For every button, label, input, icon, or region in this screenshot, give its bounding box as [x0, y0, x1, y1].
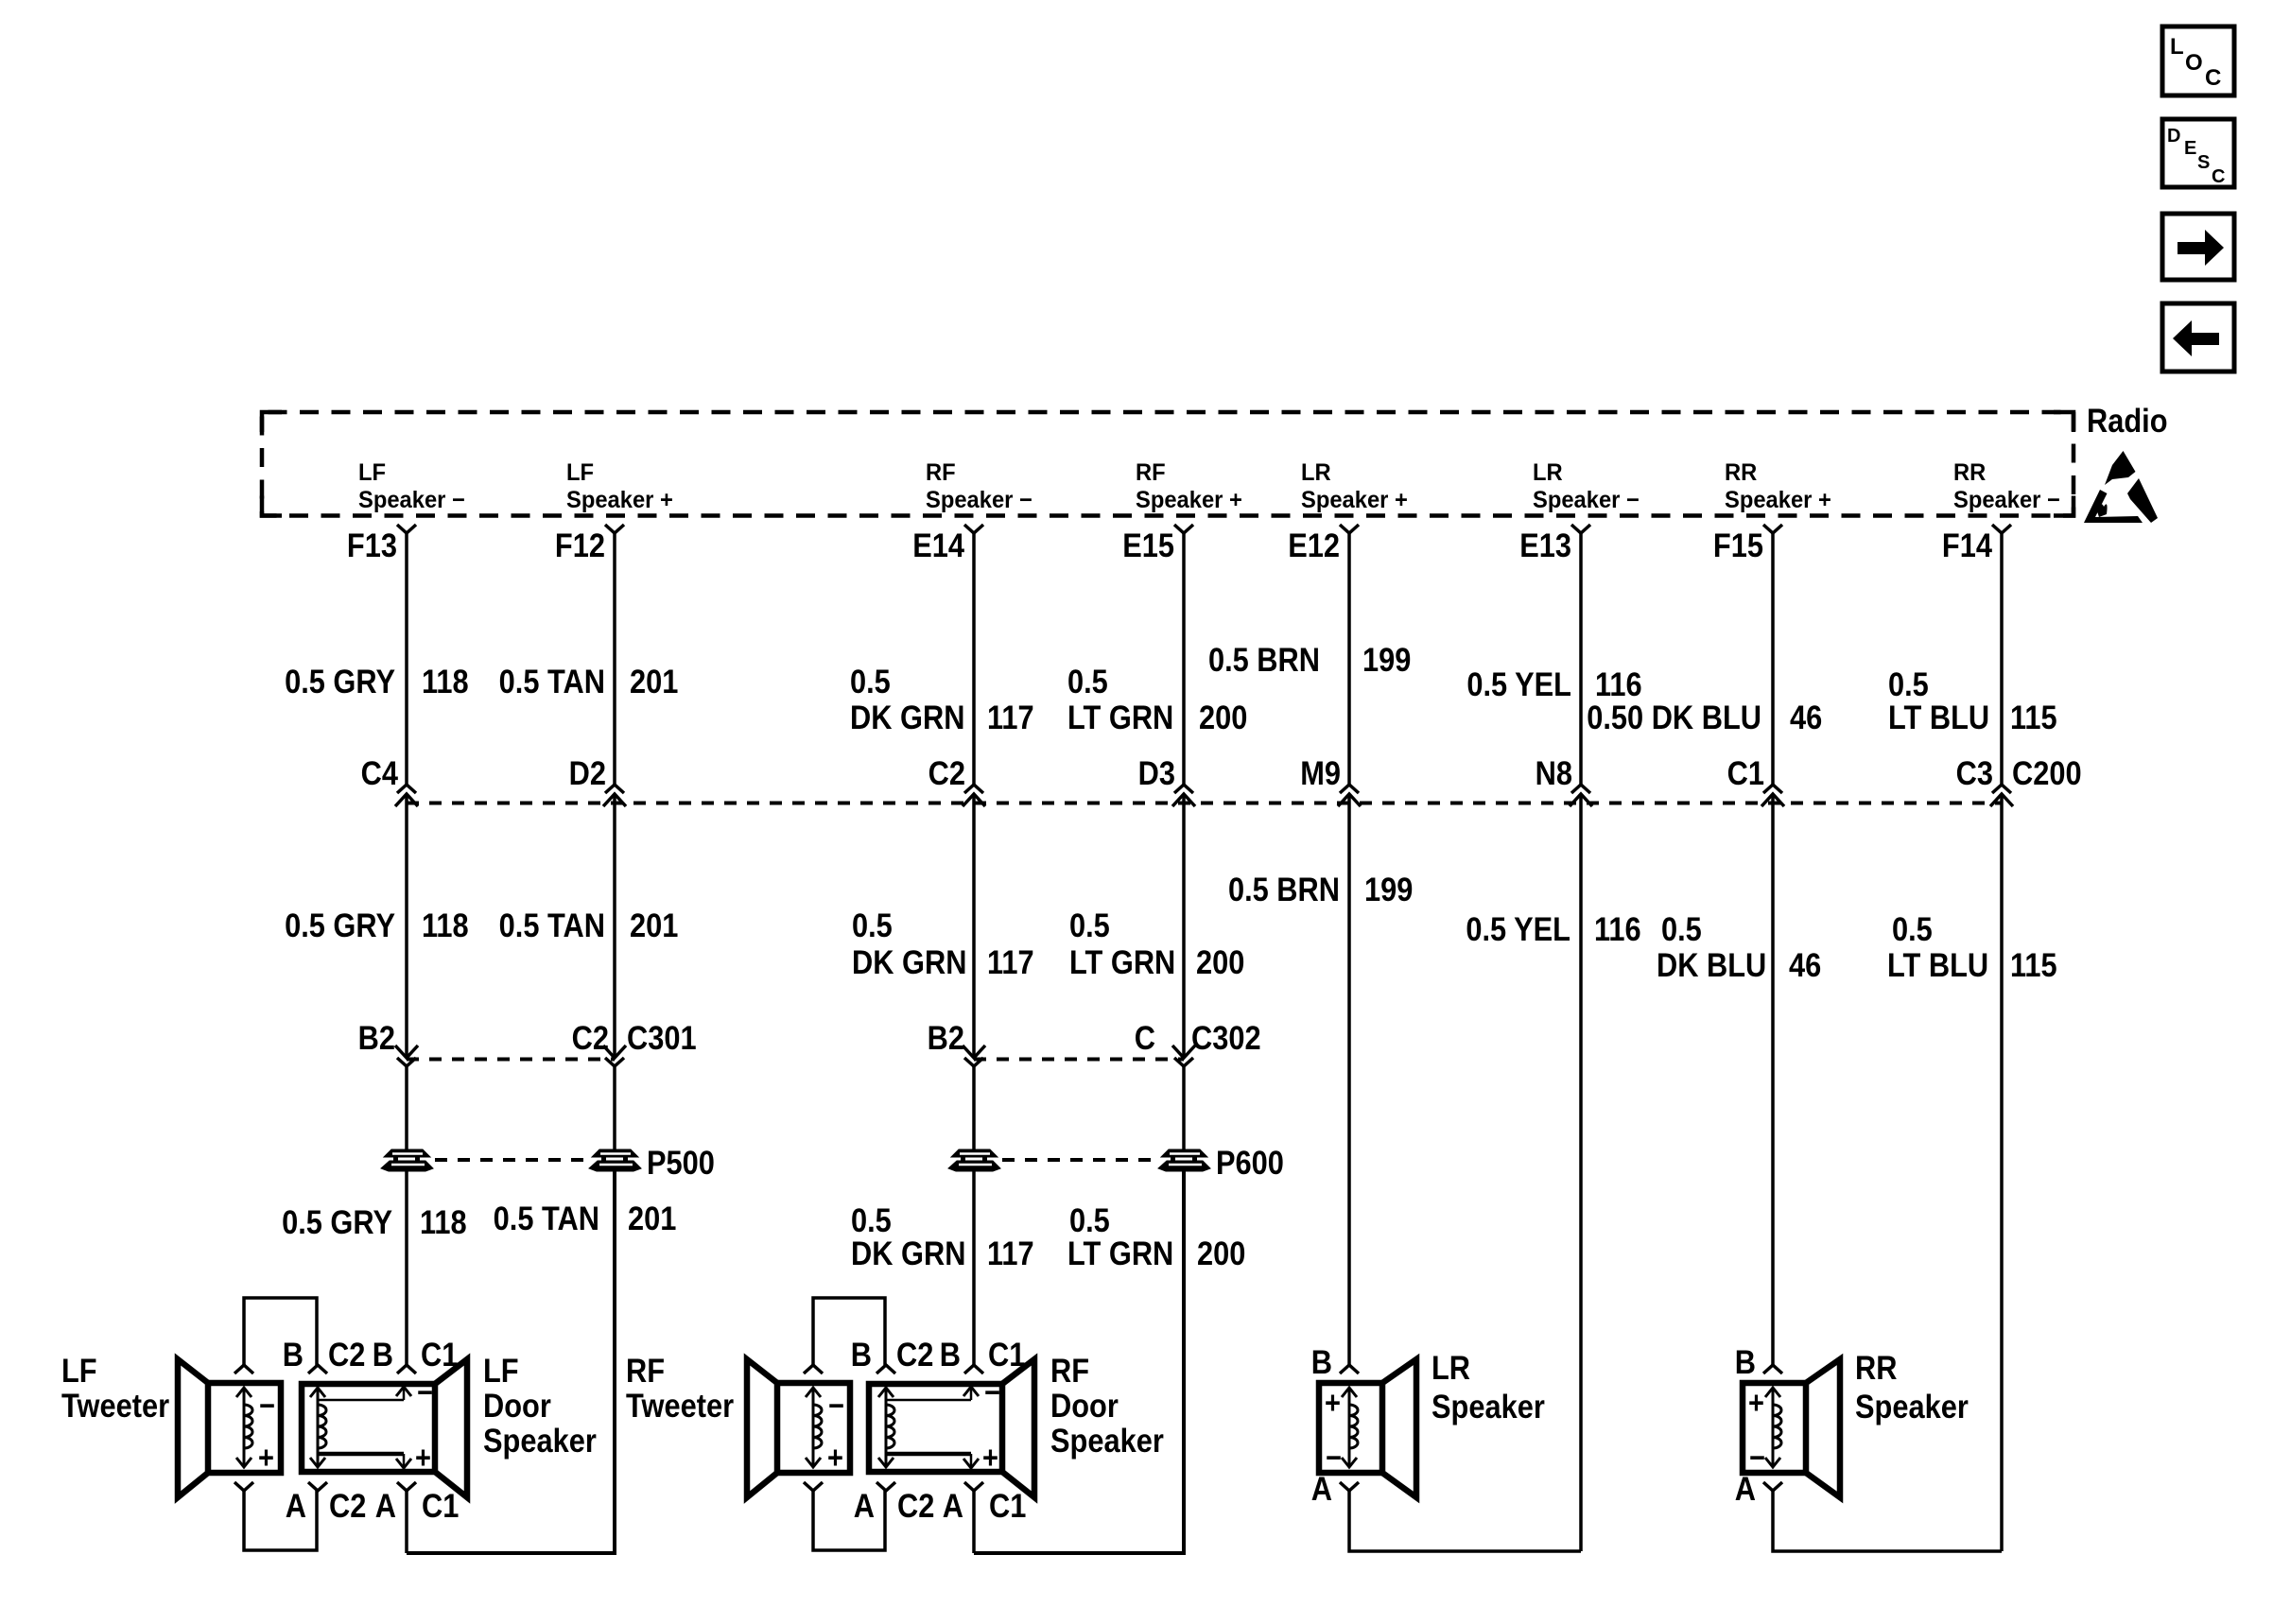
svg-text:C2: C2 — [329, 1487, 366, 1524]
svg-text:0.5: 0.5 — [1892, 910, 1933, 947]
svg-text:C1: C1 — [422, 1487, 459, 1524]
svg-text:C2: C2 — [897, 1487, 934, 1524]
radio pin F15 (RR Speaker +) — [1713, 459, 1831, 563]
svg-text:Speaker +: Speaker + — [566, 487, 673, 513]
radio pin E15 (RF Speaker +) — [1122, 459, 1242, 563]
svg-text:F15: F15 — [1713, 527, 1763, 563]
svg-text:116: 116 — [1594, 910, 1641, 947]
svg-text:D2: D2 — [569, 754, 606, 791]
svg-text:0.5 GRY: 0.5 GRY — [285, 663, 395, 700]
wire segment RF speaker - wire (DK GRN 117): radio to C200 — [972, 533, 976, 785]
svg-text:LT GRN: LT GRN — [1069, 943, 1175, 980]
svg-text:N8: N8 — [1536, 754, 1572, 791]
svg-text:−: − — [259, 1388, 275, 1423]
svg-text:0.5 TAN: 0.5 TAN — [499, 907, 605, 943]
svg-text:C3: C3 — [1956, 754, 1993, 791]
svg-text:0.5: 0.5 — [852, 907, 893, 943]
svg-text:116: 116 — [1595, 665, 1642, 702]
svg-text:Door: Door — [1050, 1387, 1119, 1424]
svg-text:0.5 YEL: 0.5 YEL — [1466, 910, 1570, 947]
LOC legend box — [2162, 26, 2234, 95]
svg-text:+: + — [415, 1440, 431, 1475]
svg-text:B: B — [283, 1336, 304, 1373]
wire segment LR - down — [1579, 794, 1583, 1551]
svg-text:118: 118 — [422, 663, 469, 700]
svg-text:0.5: 0.5 — [1069, 907, 1110, 943]
svg-text:P600: P600 — [1216, 1144, 1284, 1181]
svg-text:200: 200 — [1199, 699, 1247, 735]
svg-text:E: E — [2184, 138, 2196, 159]
svg-text:LF: LF — [358, 459, 386, 486]
svg-text:Speaker −: Speaker − — [926, 487, 1032, 513]
svg-text:Speaker +: Speaker + — [1725, 487, 1831, 513]
svg-text:−: − — [828, 1388, 844, 1423]
svg-text:B: B — [373, 1336, 393, 1373]
svg-text:201: 201 — [628, 1200, 676, 1236]
svg-text:F13: F13 — [347, 527, 397, 563]
svg-text:0.5 BRN: 0.5 BRN — [1208, 641, 1320, 678]
svg-text:Speaker −: Speaker − — [1533, 487, 1640, 513]
C200 pin terminal — [1172, 794, 1195, 806]
C200 pin terminal — [1761, 794, 1784, 806]
svg-text:0.5: 0.5 — [1069, 1201, 1110, 1238]
svg-text:C200: C200 — [2012, 754, 2082, 791]
svg-text:+: + — [1325, 1385, 1341, 1420]
svg-text:O: O — [2185, 50, 2203, 76]
wire RR A pin down to - wire — [1773, 1491, 2002, 1551]
RF tweeter symbol — [747, 1359, 850, 1497]
RF door speaker symbol — [869, 1359, 1034, 1497]
svg-text:B: B — [851, 1336, 872, 1373]
svg-text:L: L — [2170, 34, 2184, 60]
radio pin F14 (RR Speaker -) — [1942, 459, 2060, 563]
loop tweeter A to door C2 A — [244, 1491, 317, 1550]
svg-text:Tweeter: Tweeter — [626, 1387, 734, 1424]
svg-text:201: 201 — [630, 907, 678, 943]
svg-text:B: B — [1311, 1343, 1332, 1380]
svg-text:B: B — [1735, 1343, 1756, 1380]
svg-text:RF: RF — [626, 1352, 665, 1389]
svg-text:LT BLU: LT BLU — [1887, 946, 1988, 983]
svg-text:E13: E13 — [1519, 527, 1571, 563]
svg-text:LR: LR — [1301, 459, 1331, 486]
svg-text:+: + — [258, 1440, 274, 1475]
svg-text:C1: C1 — [1727, 754, 1764, 791]
svg-text:0.5 GRY: 0.5 GRY — [285, 907, 395, 943]
loop tweeter B to door C2 B — [244, 1298, 317, 1365]
svg-text:C4: C4 — [361, 754, 399, 791]
svg-text:RF: RF — [1136, 459, 1166, 486]
radio pin E14 (RF Speaker -) — [912, 459, 1032, 563]
svg-text:C1: C1 — [989, 1487, 1026, 1524]
svg-text:115: 115 — [2010, 946, 2057, 983]
wire segment LF speaker - wire (GRY 118): radio to C200 — [405, 533, 408, 785]
DESC legend box — [2162, 119, 2234, 187]
svg-text:+: + — [827, 1440, 843, 1475]
wire segment to door-harness connector — [972, 794, 976, 1058]
svg-text:Speaker −: Speaker − — [358, 487, 465, 513]
svg-text:A: A — [375, 1487, 396, 1524]
wire segment LR speaker + wire (BRN 199): radio to C200 — [1347, 533, 1351, 785]
radio pin E13 (LR Speaker -) — [1519, 459, 1640, 563]
svg-text:0.5 YEL: 0.5 YEL — [1466, 665, 1571, 702]
LR speaker symbol — [1319, 1359, 1416, 1497]
svg-text:199: 199 — [1362, 641, 1411, 678]
svg-text:B2: B2 — [358, 1019, 395, 1056]
svg-text:DK GRN: DK GRN — [851, 1235, 965, 1271]
svg-text:A: A — [1735, 1470, 1756, 1507]
svg-text:0.5: 0.5 — [1067, 663, 1108, 700]
svg-text:M9: M9 — [1300, 754, 1341, 791]
svg-text:Door: Door — [483, 1387, 551, 1424]
wire segment LR speaker - wire (YEL 116): radio to C200 — [1579, 533, 1583, 785]
svg-text:S: S — [2197, 152, 2210, 173]
svg-text:DK GRN: DK GRN — [852, 943, 966, 980]
wire segment to door-harness connector — [405, 794, 408, 1058]
wire TAN down to + terminal — [407, 1170, 615, 1553]
svg-text:+: + — [982, 1440, 998, 1475]
wire segment to door-harness connector — [1182, 794, 1186, 1058]
svg-text:0.5 BRN: 0.5 BRN — [1228, 871, 1340, 907]
svg-text:Tweeter: Tweeter — [61, 1387, 169, 1424]
connector C200 dashed line — [407, 802, 2002, 805]
svg-text:C301: C301 — [627, 1019, 697, 1056]
wire segment RR speaker + wire (DK BLU 46): radio to C200 — [1771, 533, 1775, 785]
LF tweeter symbol — [178, 1359, 281, 1497]
svg-text:RR: RR — [1953, 459, 1987, 486]
left-arrow legend box — [2162, 303, 2234, 371]
wire DK GRN to RF door speaker — [972, 1170, 976, 1365]
svg-text:118: 118 — [420, 1203, 467, 1240]
wire segment LR + to speaker — [1347, 794, 1351, 1365]
loop tweeter B to door C2 B — [813, 1298, 885, 1365]
svg-text:RR: RR — [1725, 459, 1758, 486]
wire segment RF speaker + wire (LT GRN 200): radio to C200 — [1182, 533, 1186, 785]
grommet pass-through at x=430 — [381, 1149, 433, 1171]
svg-text:C: C — [2212, 166, 2225, 187]
svg-text:P500: P500 — [647, 1144, 715, 1181]
svg-text:E15: E15 — [1122, 527, 1174, 563]
radio pin F13 (LF Speaker -) — [347, 459, 465, 563]
wire segment to door-harness connector — [613, 794, 616, 1058]
svg-text:LT GRN: LT GRN — [1067, 699, 1173, 735]
svg-text:F12: F12 — [555, 527, 605, 563]
svg-text:Speaker: Speaker — [483, 1422, 597, 1459]
svg-text:Speaker +: Speaker + — [1301, 487, 1408, 513]
grommet pass-through at x=1252 — [1158, 1149, 1210, 1171]
svg-text:0.5 TAN: 0.5 TAN — [494, 1200, 599, 1236]
wire segment RR - down — [2000, 794, 2004, 1551]
svg-text:C302: C302 — [1191, 1019, 1261, 1056]
svg-text:115: 115 — [2010, 699, 2057, 735]
svg-text:−: − — [417, 1374, 433, 1409]
grommet pass-through at x=650 — [589, 1149, 641, 1171]
svg-text:117: 117 — [987, 699, 1034, 735]
svg-text:46: 46 — [1789, 946, 1821, 983]
svg-text:Speaker: Speaker — [1050, 1422, 1164, 1459]
wire door C1 + pin down — [405, 1491, 408, 1553]
svg-text:E14: E14 — [912, 527, 964, 563]
wire GRY to LF door speaker — [405, 1170, 408, 1365]
svg-text:LF: LF — [483, 1352, 519, 1389]
svg-text:Speaker: Speaker — [1855, 1388, 1969, 1425]
svg-text:Speaker: Speaker — [1431, 1388, 1545, 1425]
svg-text:0.5 GRY: 0.5 GRY — [282, 1203, 392, 1240]
wire LT GRN down to + terminal — [974, 1170, 1184, 1553]
svg-text:RF: RF — [926, 459, 956, 486]
svg-text:RR: RR — [1855, 1349, 1898, 1386]
svg-text:F14: F14 — [1942, 527, 1993, 563]
svg-text:200: 200 — [1196, 943, 1244, 980]
svg-text:0.5: 0.5 — [1661, 910, 1702, 947]
svg-text:LF: LF — [61, 1352, 97, 1389]
svg-text:0.50 DK BLU: 0.50 DK BLU — [1587, 699, 1761, 735]
svg-text:A: A — [943, 1487, 963, 1524]
svg-text:LF: LF — [566, 459, 594, 486]
svg-text:LT BLU: LT BLU — [1888, 699, 1989, 735]
connector C302 dashed line — [974, 1058, 1184, 1062]
svg-text:Radio: Radio — [2087, 402, 2168, 439]
svg-text:A: A — [286, 1487, 306, 1524]
svg-text:C1: C1 — [421, 1336, 458, 1373]
svg-text:C2: C2 — [928, 754, 965, 791]
ESD sensitivity symbol — [2084, 451, 2158, 523]
svg-text:C2: C2 — [328, 1336, 365, 1373]
svg-text:Speaker −: Speaker − — [1953, 487, 2060, 513]
svg-text:LT GRN: LT GRN — [1067, 1235, 1173, 1271]
wire door C1 + pin down — [972, 1491, 976, 1553]
svg-text:DK BLU: DK BLU — [1657, 946, 1766, 983]
svg-text:200: 200 — [1197, 1235, 1245, 1271]
Radio component dashed box — [262, 412, 2073, 516]
C200 pin terminal — [1990, 794, 2013, 806]
svg-text:118: 118 — [422, 907, 469, 943]
svg-text:C2: C2 — [896, 1336, 933, 1373]
svg-text:199: 199 — [1364, 871, 1413, 907]
svg-text:C: C — [2205, 65, 2221, 91]
wire segment RR speaker - wire (LT BLU 115): radio to C200 — [2000, 533, 2004, 785]
svg-text:B2: B2 — [928, 1019, 964, 1056]
svg-text:0.5 TAN: 0.5 TAN — [499, 663, 605, 700]
LF door speaker symbol — [302, 1359, 467, 1497]
svg-text:LR: LR — [1431, 1349, 1470, 1386]
wire segment LF speaker + wire (TAN 201): radio to C200 — [613, 533, 616, 785]
svg-text:0.5: 0.5 — [850, 663, 891, 700]
svg-text:E12: E12 — [1288, 527, 1340, 563]
svg-text:0.5: 0.5 — [1888, 665, 1929, 702]
svg-text:LR: LR — [1533, 459, 1563, 486]
P600 dashed line — [1002, 1158, 1155, 1162]
C200 pin terminal — [1570, 794, 1592, 806]
svg-text:A: A — [1311, 1470, 1332, 1507]
loop tweeter A to door C2 A — [813, 1491, 885, 1550]
svg-text:0.5: 0.5 — [851, 1201, 892, 1238]
svg-text:46: 46 — [1790, 699, 1822, 735]
svg-text:C: C — [1135, 1019, 1155, 1056]
svg-text:−: − — [984, 1374, 1000, 1409]
svg-text:D: D — [2167, 126, 2180, 147]
C200 pin terminal — [1338, 794, 1361, 806]
C200 pin terminal — [395, 794, 418, 806]
svg-text:C1: C1 — [988, 1336, 1025, 1373]
svg-text:B: B — [940, 1336, 961, 1373]
grommet pass-through at x=1030 — [948, 1149, 1000, 1171]
svg-text:D3: D3 — [1138, 754, 1175, 791]
svg-text:A: A — [854, 1487, 875, 1524]
svg-text:DK GRN: DK GRN — [850, 699, 964, 735]
radio pin F12 (LF Speaker +) — [555, 459, 673, 563]
RR speaker symbol — [1743, 1359, 1840, 1497]
svg-text:117: 117 — [987, 1235, 1034, 1271]
C200 pin terminal — [603, 794, 626, 806]
radio pin E12 (LR Speaker +) — [1288, 459, 1408, 563]
wire LR A pin down to - wire — [1349, 1491, 1581, 1551]
right-arrow legend box — [2162, 214, 2234, 280]
svg-text:Speaker +: Speaker + — [1136, 487, 1242, 513]
svg-text:+: + — [1748, 1385, 1764, 1420]
svg-text:117: 117 — [987, 943, 1034, 980]
wire segment RR + to speaker — [1771, 794, 1775, 1365]
C200 pin terminal — [963, 794, 985, 806]
svg-text:RF: RF — [1050, 1352, 1089, 1389]
connector C301 dashed line — [407, 1058, 615, 1062]
svg-text:C2: C2 — [572, 1019, 609, 1056]
svg-text:201: 201 — [630, 663, 678, 700]
P500 dashed line — [435, 1158, 586, 1162]
